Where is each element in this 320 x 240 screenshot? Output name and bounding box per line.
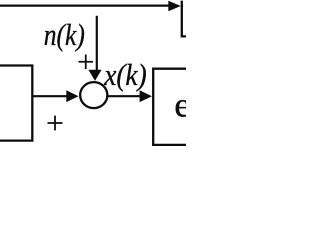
wire: top signal path	[0, 4, 169, 6]
arrowhead into right block	[140, 90, 152, 102]
plus sign: left input polarity	[48, 116, 63, 131]
arrowhead into summing junction (left)	[66, 90, 78, 102]
block: top-right (partially cropped)	[182, 1, 186, 37]
svg-text:e: e	[174, 85, 186, 124]
wire: summing junction output	[107, 95, 141, 97]
block: left (partially cropped)	[0, 66, 32, 141]
summing junction circle	[80, 82, 107, 108]
plus sign: n(k) input polarity	[79, 55, 94, 70]
svg-text:x(k): x(k)	[103, 57, 146, 92]
wire: n(k) input vertical	[96, 16, 98, 71]
wire: left block output	[32, 95, 67, 97]
arrowhead into top-right block	[168, 1, 181, 12]
arrowhead into summing junction (top)	[88, 70, 101, 81]
block: right (partially cropped)	[153, 69, 186, 145]
svg-text:n(k): n(k)	[44, 17, 85, 52]
